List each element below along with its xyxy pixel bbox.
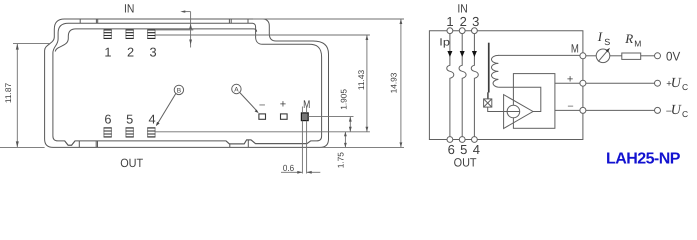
pin minus pad bbox=[259, 114, 266, 119]
svg-text:B: B bbox=[177, 87, 181, 94]
svg-text:2: 2 bbox=[127, 45, 134, 60]
svg-text:A: A bbox=[234, 87, 239, 94]
svg-text:11.87: 11.87 bbox=[3, 83, 13, 104]
dimension 0.6 with M-pin extension lines bbox=[281, 107, 320, 174]
schematic box bbox=[429, 31, 583, 140]
package lid outer outline bbox=[45, 19, 329, 147]
pin 4 bbox=[147, 128, 155, 137]
pin 5 bbox=[126, 128, 134, 137]
bottom inner feature line (notches) bbox=[65, 140, 311, 145]
svg-text:IN: IN bbox=[124, 1, 134, 15]
svg-text:1: 1 bbox=[446, 14, 453, 29]
hall generator box bbox=[484, 99, 507, 112]
feedback wire from amp output to coil bottom bbox=[498, 87, 540, 111]
svg-text:OUT: OUT bbox=[454, 156, 478, 170]
svg-text:6: 6 bbox=[104, 112, 111, 127]
svg-text:1.905: 1.905 bbox=[338, 89, 348, 110]
body top edge line bbox=[55, 29, 256, 52]
svg-text:M: M bbox=[634, 38, 641, 48]
dimension 11.43 bbox=[155, 35, 370, 132]
dimension pin thickness (unlabelled) bbox=[155, 12, 370, 48]
terminal M circle bbox=[580, 53, 586, 59]
svg-text:U: U bbox=[671, 103, 682, 118]
pin plus pad bbox=[281, 114, 288, 119]
current arrows on primary wires bbox=[447, 51, 477, 57]
pin 2 bbox=[126, 30, 134, 39]
svg-text:–: – bbox=[568, 101, 574, 112]
svg-text:C: C bbox=[682, 109, 688, 119]
bottom edge tick marks bbox=[79, 140, 248, 148]
svg-text:1: 1 bbox=[104, 45, 111, 60]
terminal circles 1 2 3 bbox=[447, 28, 453, 34]
svg-text:+: + bbox=[567, 74, 573, 86]
svg-text:3: 3 bbox=[472, 14, 479, 29]
wire M to Is bbox=[586, 55, 596, 57]
terminal -Uc bbox=[655, 107, 661, 113]
terminal plus circle bbox=[580, 80, 586, 86]
electronics box bbox=[513, 74, 555, 129]
svg-text:R: R bbox=[624, 31, 633, 46]
wire Is to Rm bbox=[610, 55, 622, 57]
svg-text:0.6: 0.6 bbox=[283, 163, 294, 173]
wire to plus terminal bbox=[555, 82, 580, 84]
svg-text:2: 2 bbox=[460, 14, 467, 29]
callout circle B bbox=[156, 85, 184, 126]
dimension 11.87 bbox=[0, 44, 50, 148]
package lid inner outline bbox=[53, 23, 322, 145]
secondary coil bbox=[491, 55, 498, 87]
op-amp triangle bbox=[504, 95, 533, 129]
terminal 0V bbox=[655, 53, 661, 59]
hall element connector to core bbox=[487, 92, 489, 99]
svg-text:4: 4 bbox=[148, 112, 155, 127]
svg-text:3: 3 bbox=[150, 45, 157, 60]
svg-text:OUT: OUT bbox=[120, 156, 144, 170]
terminal minus circle bbox=[580, 107, 586, 113]
svg-text:–: – bbox=[259, 99, 265, 110]
wire Rm to 0V bbox=[641, 55, 655, 57]
pin 1 bbox=[104, 30, 112, 39]
svg-text:0V: 0V bbox=[666, 49, 681, 63]
svg-text:5: 5 bbox=[126, 112, 133, 127]
amp circle bbox=[507, 105, 520, 118]
terminal +Uc bbox=[655, 80, 661, 86]
callout circle A bbox=[232, 84, 259, 113]
svg-text:C: C bbox=[682, 82, 688, 92]
svg-text:Ip: Ip bbox=[439, 37, 450, 49]
svg-text:M: M bbox=[571, 42, 579, 56]
svg-text:11.43: 11.43 bbox=[356, 70, 366, 91]
M wire from coil top bbox=[498, 54, 580, 56]
terminal circles 6 5 4 bbox=[447, 137, 453, 143]
primary wire 2 bbox=[459, 34, 466, 137]
svg-text:U: U bbox=[671, 76, 682, 91]
wire plus to +Uc bbox=[586, 82, 655, 84]
wire to minus terminal bbox=[555, 109, 580, 111]
svg-text:S: S bbox=[604, 37, 610, 47]
svg-text:1.75: 1.75 bbox=[335, 152, 345, 169]
svg-text:LAH25-NP: LAH25-NP bbox=[606, 151, 681, 168]
dimension 1.905 bbox=[308, 117, 353, 132]
dimension 1.75 bbox=[344, 132, 346, 148]
top edge tick marks bbox=[80, 19, 248, 23]
svg-text:14.93: 14.93 bbox=[389, 72, 399, 93]
primary wire 3 bbox=[471, 34, 478, 137]
svg-text:I: I bbox=[597, 29, 603, 44]
primary wire 1 bbox=[447, 34, 454, 137]
wire minus to -Uc bbox=[586, 109, 655, 111]
pin 3 bbox=[147, 30, 155, 39]
pin 6 bbox=[104, 128, 112, 137]
transformer core bbox=[488, 43, 490, 93]
amp circle diameter line bbox=[504, 111, 520, 113]
resistor Rm bbox=[622, 53, 641, 59]
current source Is bbox=[596, 49, 610, 63]
hall to amp wire bbox=[488, 107, 507, 111]
pin M pad bbox=[301, 113, 308, 121]
dimension 14.93 bbox=[253, 19, 404, 147]
svg-text:+: + bbox=[280, 99, 286, 111]
